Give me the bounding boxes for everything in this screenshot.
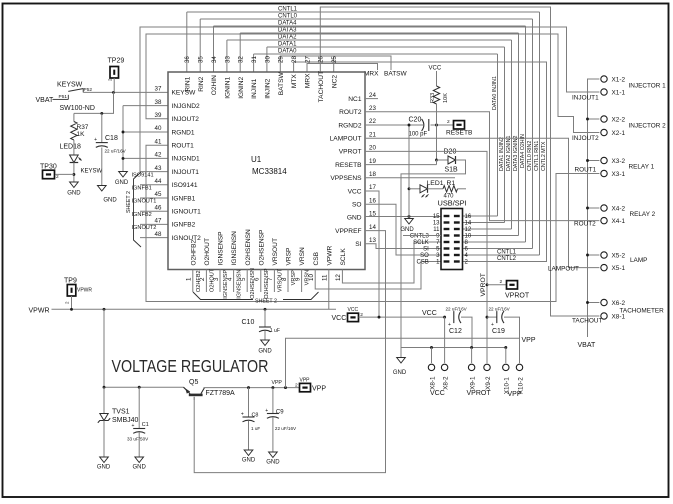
wire ROUT1 net (pin 41 wrap to X3-1) xyxy=(146,145,599,301)
node pad X9-2 xyxy=(484,364,490,370)
svg-text:O2HSENSN: O2HSENSN xyxy=(250,268,256,299)
svg-text:VRSN: VRSN xyxy=(299,247,306,266)
junction pin42 gnd xyxy=(122,157,125,160)
svg-text:C12: C12 xyxy=(449,328,462,335)
svg-text:IGNOUT1: IGNOUT1 xyxy=(172,209,202,216)
junction TP9 xyxy=(70,308,73,311)
svg-text:31: 31 xyxy=(251,56,258,63)
svg-text:29: 29 xyxy=(278,56,285,63)
sheet 2 bracket left xyxy=(134,172,142,247)
svg-text:INJECTOR 2: INJECTOR 2 xyxy=(629,122,667,129)
svg-text:VPROT: VPROT xyxy=(467,390,492,397)
svg-text:RESETB: RESETB xyxy=(446,129,473,136)
junction D20 xyxy=(435,159,438,162)
svg-text:25: 25 xyxy=(331,56,338,63)
svg-text:VPP: VPP xyxy=(272,380,283,386)
svg-text:20: 20 xyxy=(369,145,376,152)
junction gnd stub xyxy=(408,215,411,218)
wire MRX stub from pin 27 xyxy=(307,64,378,73)
junction VCC from IC xyxy=(378,316,381,319)
svg-text:40: 40 xyxy=(155,125,162,132)
svg-text:16: 16 xyxy=(369,197,376,204)
wire DATA2 bus xyxy=(227,39,512,41)
svg-text:VPP: VPP xyxy=(300,377,311,383)
svg-text:100 pF: 100 pF xyxy=(409,131,428,137)
svg-text:34: 34 xyxy=(211,56,218,63)
svg-text:VPP: VPP xyxy=(312,386,326,393)
svg-text:MTX: MTX xyxy=(291,74,298,89)
svg-text:ISO9141: ISO9141 xyxy=(172,182,198,189)
ground below TVS1 xyxy=(100,457,109,463)
svg-text:VCC: VCC xyxy=(348,188,362,195)
wire VCC rail xyxy=(359,316,445,318)
node pad X8-1 xyxy=(428,364,434,370)
svg-text:VPWR: VPWR xyxy=(77,288,92,294)
capacitor C1 33uF/50V xyxy=(138,387,140,428)
node pad X2-1 xyxy=(601,129,607,135)
svg-text:DATA4 O2HIN: DATA4 O2HIN xyxy=(520,134,526,168)
svg-text:RIN2: RIN2 xyxy=(198,76,205,91)
svg-text:GND: GND xyxy=(393,370,407,376)
junction C19 VPROT xyxy=(486,316,489,319)
svg-text:NC1: NC1 xyxy=(348,96,362,103)
svg-text:26: 26 xyxy=(318,56,325,63)
svg-text:CSB: CSB xyxy=(313,251,320,265)
svg-text:11: 11 xyxy=(322,274,329,281)
wire TACHOUT net (pin 26 to X6-1) xyxy=(320,7,599,316)
svg-text:ROUT2: ROUT2 xyxy=(574,221,596,228)
svg-text:X3-2: X3-2 xyxy=(612,158,626,165)
junction pin40 gnd xyxy=(122,131,125,134)
svg-text:IGNFB1: IGNFB1 xyxy=(132,186,152,192)
svg-text:VPWR: VPWR xyxy=(326,245,333,265)
node pad X3-1 xyxy=(601,170,607,176)
svg-text:X1-1: X1-1 xyxy=(612,89,626,96)
node pad X8-2 xyxy=(441,364,447,370)
svg-text:P52: P52 xyxy=(84,87,93,93)
junction C18 tap xyxy=(100,112,103,115)
svg-text:DATA1: DATA1 xyxy=(278,42,297,48)
junction VPP riser xyxy=(284,386,287,389)
svg-text:C18: C18 xyxy=(105,135,118,142)
wire VPWR pin 11 to rail xyxy=(328,270,330,310)
svg-text:+: + xyxy=(241,411,244,417)
wire VCC net pin 17 down to VCC rail xyxy=(365,191,379,317)
svg-text:RGND1: RGND1 xyxy=(172,129,195,136)
svg-text:+: + xyxy=(132,423,135,429)
node pad X8-1 xyxy=(601,313,607,319)
svg-text:CNTL3: CNTL3 xyxy=(410,234,430,240)
wire CNTL3 row xyxy=(403,235,441,237)
svg-text:14: 14 xyxy=(465,221,472,227)
capacitor C10 .1uF xyxy=(264,309,266,327)
junction VPROT testpoint tap xyxy=(486,283,489,286)
test point VPROT right side xyxy=(487,284,507,286)
svg-text:CNTL0: CNTL0 xyxy=(278,14,298,20)
svg-text:1K: 1K xyxy=(77,131,86,138)
svg-text:ROUT2: ROUT2 xyxy=(339,109,362,116)
resistor R37 1K xyxy=(71,122,77,141)
svg-text:VPPREF: VPPREF xyxy=(335,228,361,235)
svg-text:1: 1 xyxy=(186,277,193,281)
wire VBAT bus vertical xyxy=(588,79,600,337)
wire VPP rail from Q5 xyxy=(204,387,300,389)
svg-text:IGNFB1: IGNFB1 xyxy=(172,195,196,202)
node pad X5-1 xyxy=(601,264,607,270)
svg-text:IGNSENSN: IGNSENSN xyxy=(237,270,243,299)
svg-text:2: 2 xyxy=(500,279,503,285)
svg-text:+: + xyxy=(491,322,494,328)
ground below C9 xyxy=(269,452,278,458)
wire CNTL0 bus xyxy=(200,18,532,20)
svg-text:SHEET 2: SHEET 2 xyxy=(126,191,132,213)
ground arrow on rail xyxy=(400,348,402,358)
wire LED feed vertical xyxy=(408,125,410,219)
svg-text:18: 18 xyxy=(369,171,376,178)
svg-text:VCC: VCC xyxy=(430,390,445,397)
ground below LED18 xyxy=(70,182,79,188)
svg-text:43: 43 xyxy=(155,165,162,172)
svg-text:15: 15 xyxy=(433,214,440,220)
svg-text:TP30: TP30 xyxy=(40,163,57,170)
junction LED TP30 xyxy=(72,173,75,176)
svg-text:13: 13 xyxy=(369,237,376,244)
svg-text:C20: C20 xyxy=(409,116,422,123)
node pad X10-2 xyxy=(516,364,522,370)
svg-text:SCLK: SCLK xyxy=(413,240,429,246)
wire INJOUT1 net (pin 43 wrap to X1-1) xyxy=(140,27,599,172)
svg-text:39: 39 xyxy=(155,112,162,119)
wire VBAT stub to X4-2 xyxy=(588,207,600,209)
svg-text:C19: C19 xyxy=(492,328,505,335)
wire SCLK pin 12 to USB xyxy=(342,242,441,283)
wire NC2 stub pin 25 xyxy=(333,56,335,72)
svg-text:DATA2 IGNIN1: DATA2 IGNIN1 xyxy=(506,136,512,171)
svg-text:22 uF/16V: 22 uF/16V xyxy=(275,426,297,431)
op-amp U1 MC33814 IC body xyxy=(168,72,365,270)
svg-text:IGNSENSN: IGNSENSN xyxy=(231,231,238,266)
svg-text:INJECTOR 1: INJECTOR 1 xyxy=(629,82,667,89)
wire sheet2 stubs pins 44-48 xyxy=(140,184,168,186)
ground below C8 xyxy=(244,450,253,456)
svg-text:X9-2: X9-2 xyxy=(485,376,492,390)
svg-text:X8-1: X8-1 xyxy=(429,376,436,390)
junction C10 tap xyxy=(264,308,267,311)
svg-text:GND: GND xyxy=(258,349,272,355)
svg-text:TP29: TP29 xyxy=(108,58,125,65)
node pad X4-2 xyxy=(601,205,607,211)
node pad X4-1 xyxy=(601,217,607,223)
svg-text:SI: SI xyxy=(355,241,361,248)
wire injector ground chain (pins 38 40 42) xyxy=(123,105,168,107)
svg-text:KEYSW: KEYSW xyxy=(57,82,83,89)
svg-text:VBAT: VBAT xyxy=(578,342,596,349)
svg-text:CNTL1 RIN1: CNTL1 RIN1 xyxy=(534,141,540,171)
svg-text:FZT789A: FZT789A xyxy=(206,390,236,397)
svg-text:35: 35 xyxy=(198,56,205,63)
wire INJOUT2 net (pin 39 wrap to X2-1) xyxy=(146,34,599,133)
svg-text:RELAY 1: RELAY 1 xyxy=(629,164,655,171)
svg-text:O2HSENSN: O2HSENSN xyxy=(245,229,252,266)
svg-text:41: 41 xyxy=(155,138,162,145)
svg-text:37: 37 xyxy=(155,86,162,93)
ground GND-A left chain xyxy=(119,172,128,178)
wire CNTL2 (MTX pin 28 to USB pin 2) xyxy=(294,62,547,262)
svg-text:+: + xyxy=(94,137,97,143)
svg-text:X6-2: X6-2 xyxy=(612,300,626,307)
svg-text:IGNFB2: IGNFB2 xyxy=(172,222,196,229)
wire RESETB net pin 19 to R33/D20 chain xyxy=(365,164,437,166)
svg-text:36: 36 xyxy=(184,56,191,63)
svg-text:1 uF: 1 uF xyxy=(251,426,260,431)
svg-text:.1 uF: .1 uF xyxy=(269,328,280,334)
wire X8-2 riser xyxy=(444,317,446,363)
svg-text:IGNFB2: IGNFB2 xyxy=(132,212,152,218)
wire X8-1 riser xyxy=(431,348,433,364)
junction X8-1 xyxy=(430,346,433,349)
wire RGND2 to C20 xyxy=(365,124,423,126)
svg-text:O2HFB2: O2HFB2 xyxy=(196,270,202,292)
svg-text:VPWR: VPWR xyxy=(29,307,50,314)
svg-text:TVS1: TVS1 xyxy=(112,408,130,415)
svg-text:IGNOUT2: IGNOUT2 xyxy=(132,225,157,231)
wire DATA3 bus xyxy=(240,32,518,34)
wire X10-1 riser xyxy=(505,348,507,364)
diode TVS1 SMBJ40 xyxy=(103,387,105,413)
junction C1 tap xyxy=(138,386,141,389)
svg-text:11: 11 xyxy=(433,227,440,233)
node pad X9-1 xyxy=(468,364,474,370)
svg-text:INJOUT2: INJOUT2 xyxy=(572,135,599,142)
svg-text:19: 19 xyxy=(369,158,376,165)
svg-text:X8-2: X8-2 xyxy=(442,376,449,390)
wire GND pin 15 to USB pin 15 xyxy=(365,216,441,218)
svg-text:ROUT1: ROUT1 xyxy=(172,143,195,150)
svg-text:SI: SI xyxy=(423,247,429,253)
svg-text:DATA2: DATA2 xyxy=(278,35,297,41)
wire switch to R37 and C18 xyxy=(74,92,114,113)
svg-text:X1-2: X1-2 xyxy=(612,76,626,83)
svg-text:10: 10 xyxy=(465,234,472,240)
svg-text:TP9: TP9 xyxy=(64,277,77,284)
svg-text:SCLK: SCLK xyxy=(340,248,347,266)
svg-text:O2HSENSP: O2HSENSP xyxy=(258,229,265,266)
ground small near USB xyxy=(405,219,414,225)
svg-text:+: + xyxy=(448,322,451,328)
svg-text:IGNOUT1: IGNOUT1 xyxy=(132,199,157,205)
svg-text:CNTL2 MTX: CNTL2 MTX xyxy=(541,141,547,171)
svg-text:21: 21 xyxy=(369,131,376,138)
wire sheet2 bottom stubs pins 1-9 xyxy=(192,270,194,293)
svg-text:47: 47 xyxy=(155,218,162,225)
node pad X3-2 xyxy=(601,157,607,163)
wire BATSW stub from pin 29 xyxy=(280,56,391,72)
svg-text:23: 23 xyxy=(369,105,376,112)
node pad X1-2 xyxy=(601,76,607,82)
svg-text:CNTL0 RIN2: CNTL0 RIN2 xyxy=(527,141,533,171)
svg-text:O2HIN: O2HIN xyxy=(211,75,218,95)
svg-text:+: + xyxy=(265,408,268,414)
svg-text:12: 12 xyxy=(335,274,342,281)
svg-text:CNTL2: CNTL2 xyxy=(497,256,517,262)
wire ROUT2 net (pin 23 to X4-1) xyxy=(365,112,599,221)
junction C20 left tap xyxy=(408,124,411,127)
svg-text:GND: GND xyxy=(400,227,414,233)
node pad X10-1 xyxy=(503,364,509,370)
svg-text:DATA4: DATA4 xyxy=(278,21,297,27)
svg-text:12: 12 xyxy=(465,227,472,233)
sheet 2 bracket bottom xyxy=(193,292,253,300)
wire VBAT stub to X3-2 xyxy=(588,160,600,162)
svg-text:O2HOUT: O2HOUT xyxy=(204,238,211,265)
svg-text:IGNIN1: IGNIN1 xyxy=(225,76,232,98)
svg-text:VPPSENS: VPPSENS xyxy=(330,175,362,182)
svg-text:R33: R33 xyxy=(430,93,436,103)
wire VBAT stub to X5-2 xyxy=(588,254,600,256)
svg-text:DATA3 IGNIN2: DATA3 IGNIN2 xyxy=(513,136,519,171)
svg-text:INJGND2: INJGND2 xyxy=(172,103,201,110)
svg-text:VCC: VCC xyxy=(422,310,437,317)
svg-text:VPROT: VPROT xyxy=(505,293,530,300)
svg-text:DATA0: DATA0 xyxy=(278,49,297,55)
svg-text:VBAT: VBAT xyxy=(36,97,54,104)
svg-text:TACHOMETER: TACHOMETER xyxy=(620,308,665,315)
svg-text:KEYSW: KEYSW xyxy=(81,168,103,174)
svg-text:LAMPOUT: LAMPOUT xyxy=(548,266,579,273)
junction TVS feed xyxy=(103,308,106,311)
node pad X1-1 xyxy=(601,89,607,95)
wire VBAT stub to X2-2 xyxy=(588,118,600,120)
svg-text:32: 32 xyxy=(238,56,245,63)
svg-text:14: 14 xyxy=(369,224,376,231)
wire R33 down to D20 xyxy=(436,125,438,160)
svg-text:VRSOUT: VRSOUT xyxy=(272,238,279,265)
svg-text:16: 16 xyxy=(465,214,472,220)
svg-text:38: 38 xyxy=(155,99,162,106)
capacitor C8 1uF xyxy=(248,388,250,417)
svg-text:GND: GND xyxy=(133,465,147,471)
junction X9-1 xyxy=(470,346,473,349)
svg-text:SW100-ND: SW100-ND xyxy=(60,105,95,112)
svg-text:GND: GND xyxy=(103,198,117,204)
svg-text:22 uF/16V: 22 uF/16V xyxy=(446,306,468,311)
ground below C18 xyxy=(98,186,107,192)
svg-text:LED1: LED1 xyxy=(427,180,444,187)
svg-text:GND: GND xyxy=(115,180,129,186)
svg-text:X5-2: X5-2 xyxy=(612,252,626,259)
svg-text:LED18: LED18 xyxy=(60,144,82,151)
svg-text:USB/SPI: USB/SPI xyxy=(438,199,467,208)
svg-text:GND: GND xyxy=(97,465,111,471)
svg-text:C10: C10 xyxy=(242,319,255,326)
svg-text:45: 45 xyxy=(155,191,162,198)
svg-text:INJIN1: INJIN1 xyxy=(251,78,258,98)
svg-text:BATSW: BATSW xyxy=(278,72,285,96)
svg-text:DATA1 INJIN2: DATA1 INJIN2 xyxy=(499,137,505,171)
ground below C10 xyxy=(261,340,270,346)
svg-text:46: 46 xyxy=(155,204,162,211)
wire DATA4 bus xyxy=(214,25,526,27)
node pad X2-2 xyxy=(601,116,607,122)
svg-text:48: 48 xyxy=(155,231,162,238)
svg-text:33: 33 xyxy=(224,56,231,63)
svg-text:INJOUT2: INJOUT2 xyxy=(172,116,200,123)
svg-text:R37: R37 xyxy=(77,124,89,131)
svg-text:MC33814: MC33814 xyxy=(252,167,287,176)
wire VPWR down to regulator xyxy=(103,309,105,387)
svg-text:42: 42 xyxy=(155,152,162,159)
svg-text:VRSP: VRSP xyxy=(286,247,293,266)
svg-text:SHEET 2: SHEET 2 xyxy=(255,298,277,304)
svg-text:VRSP: VRSP xyxy=(291,270,297,286)
svg-text:X2-1: X2-1 xyxy=(612,130,626,137)
svg-text:GND: GND xyxy=(266,460,280,466)
svg-text:22 uF/16V: 22 uF/16V xyxy=(489,306,511,311)
svg-text:44: 44 xyxy=(155,178,162,185)
svg-text:X5-1: X5-1 xyxy=(612,265,626,272)
svg-text:VCC: VCC xyxy=(332,315,347,322)
svg-text:22 uF/16V: 22 uF/16V xyxy=(105,149,127,154)
svg-text:X9-1: X9-1 xyxy=(469,376,476,390)
junction VCC C12 xyxy=(443,316,446,319)
junction C9 tap xyxy=(271,386,274,389)
svg-text:RESETB: RESETB xyxy=(335,162,362,169)
node pad X6-2 xyxy=(601,299,607,305)
wire VPPSENS net pin 18 xyxy=(365,177,455,179)
svg-text:NC2: NC2 xyxy=(331,75,338,89)
svg-text:BATSW: BATSW xyxy=(384,71,407,78)
svg-text:INJGND1: INJGND1 xyxy=(172,156,201,163)
wire DATA0 bus xyxy=(254,53,498,55)
wire CNTL1 bus xyxy=(187,11,540,13)
svg-text:VOLTAGE REGULATOR: VOLTAGE REGULATOR xyxy=(112,356,269,376)
svg-text:X3-1: X3-1 xyxy=(612,171,626,178)
svg-text:X2-2: X2-2 xyxy=(612,116,626,123)
svg-text:TACHOUT: TACHOUT xyxy=(572,318,603,325)
svg-text:IGNIN2: IGNIN2 xyxy=(238,76,245,98)
svg-text:VCC: VCC xyxy=(429,66,442,72)
node pad X5-2 xyxy=(601,252,607,258)
svg-text:SO: SO xyxy=(352,202,362,209)
svg-text:LAMPOUT: LAMPOUT xyxy=(330,136,362,143)
svg-text:D20: D20 xyxy=(444,149,457,156)
svg-text:LAMP: LAMP xyxy=(630,257,647,264)
svg-text:2: 2 xyxy=(447,119,450,125)
wire SO net pin 16 to USB pin 3 xyxy=(365,204,441,255)
svg-text:13: 13 xyxy=(433,221,440,227)
svg-text:GND: GND xyxy=(347,215,362,222)
svg-text:C9: C9 xyxy=(276,409,284,415)
svg-text:33 uF/50V: 33 uF/50V xyxy=(127,436,149,441)
wire ground rail bottom xyxy=(401,347,506,349)
junction Q5 dot left xyxy=(103,386,106,389)
svg-text:CNTL1: CNTL1 xyxy=(497,250,517,256)
wire VPP riser to top rail xyxy=(286,338,520,387)
svg-text:X4-2: X4-2 xyxy=(612,205,626,212)
svg-text:RELAY 2: RELAY 2 xyxy=(630,211,656,218)
junction C8 tap xyxy=(247,386,250,389)
svg-text:INJOUT1: INJOUT1 xyxy=(572,95,599,102)
svg-text:INJIN2: INJIN2 xyxy=(265,78,272,98)
svg-text:IGNSENSP: IGNSENSP xyxy=(223,270,229,299)
svg-text:17: 17 xyxy=(369,184,376,191)
svg-text:VCC: VCC xyxy=(348,307,359,313)
wire VBAT stub to X6-2 xyxy=(588,302,600,304)
svg-text:VPROT: VPROT xyxy=(339,149,362,156)
wire DATA1 bus xyxy=(267,46,505,48)
wire X9-1 riser xyxy=(471,348,473,364)
svg-text:RGND2: RGND2 xyxy=(338,122,361,129)
